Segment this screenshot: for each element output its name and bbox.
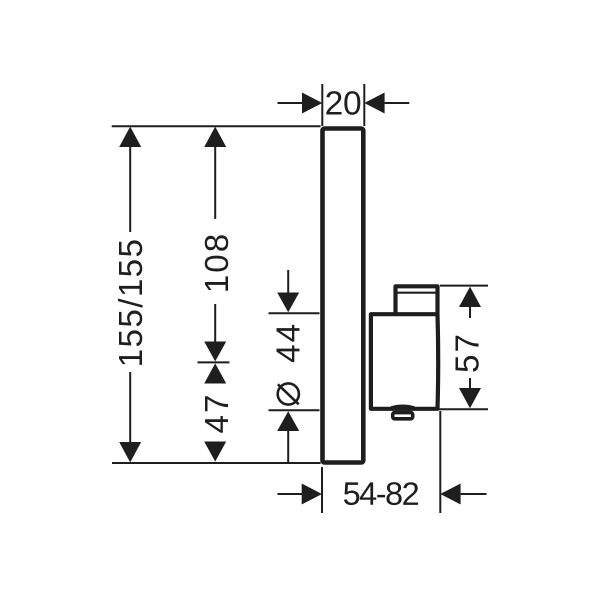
svg-text:57: 57	[449, 332, 486, 373]
extension line 57 top horizontal	[440, 285, 488, 287]
dimension 20 right arrow	[364, 93, 409, 114]
svg-text:20: 20	[325, 85, 362, 122]
label 57	[449, 332, 486, 373]
label 20	[325, 85, 362, 122]
label 155/155	[113, 238, 150, 368]
dimension 20 left arrow	[278, 93, 323, 114]
knob top step inner line	[398, 292, 436, 294]
svg-text:155/155: 155/155	[113, 238, 150, 368]
svg-text:47: 47	[199, 393, 236, 434]
dimension O44 bottom arrow and tail	[277, 411, 299, 462]
extension line 20-dim left vertical	[321, 84, 323, 126]
dimension 47 lower arrow	[204, 442, 226, 462]
tick O44 bottom	[269, 409, 320, 411]
svg-text:44: 44	[270, 322, 307, 363]
dimension 57 lower arrow with tail	[459, 378, 481, 408]
label 108	[199, 232, 236, 293]
label 44	[270, 322, 307, 363]
dimension line 155/155 upper segment with arrow	[119, 127, 141, 232]
dimension 54-82 right arrow	[440, 484, 486, 505]
extension line bottom-left horizontal (155 bottom boundary)	[112, 462, 321, 464]
svg-text:108: 108	[199, 232, 236, 293]
dimension line 108 lower segment with arrow	[204, 304, 226, 361]
svg-text:54-82: 54-82	[343, 476, 419, 512]
tick between 108 and 47	[198, 361, 230, 363]
label 47	[199, 393, 236, 434]
label diameter symbol	[278, 383, 299, 404]
knob bottom tab	[393, 413, 413, 419]
extension line 54-82 right vertical	[439, 411, 441, 513]
dimension line 108 upper segment with arrow	[204, 127, 226, 219]
label 54-82	[343, 476, 419, 512]
extension line 57 bottom horizontal	[437, 408, 488, 410]
dimension 57 upper arrow with tail	[459, 287, 481, 318]
extension line 20-dim right vertical	[363, 84, 365, 126]
knob bottom bump	[391, 406, 414, 408]
dimension O44 top tail and arrow	[277, 270, 299, 312]
knob top step outline	[396, 286, 438, 313]
extension line top-left horizontal (155 top boundary)	[112, 125, 321, 127]
tick O44 top	[269, 312, 320, 314]
plate side view	[323, 129, 364, 463]
extension line 54-82 left vertical	[321, 467, 323, 513]
dimension 54-82 left arrow	[278, 484, 323, 505]
knob body	[371, 314, 438, 409]
dimension line 155/155 lower segment with arrow	[119, 372, 141, 462]
dimension 47 upper arrow	[204, 363, 226, 383]
